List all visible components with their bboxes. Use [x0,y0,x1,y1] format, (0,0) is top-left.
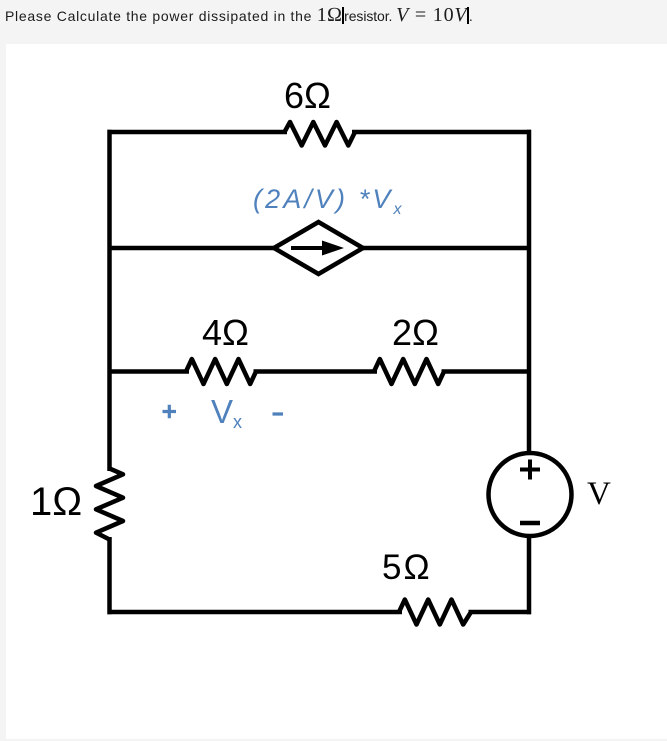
voltage source plus sign [520,460,540,480]
label plus Vx minus [163,405,284,418]
wire top [108,130,532,135]
wire middle branch segment [254,369,378,374]
svg-text:1Ω: 1Ω [30,480,82,524]
svg-text:5Ω: 5Ω [382,548,432,587]
resistor 2ohm [374,359,444,384]
voltage source minus sign [520,521,540,526]
svg-text:4Ω: 4Ω [202,312,249,353]
wire middle branch [108,369,190,374]
voltage source V circle [489,453,572,536]
svg-text:Vx: Vx [211,393,242,432]
wire middle branch segment 2 [442,369,532,374]
resistor 4ohm [186,359,256,384]
wire right [527,130,532,615]
resistor 5ohm [399,600,471,625]
wire current-source branch [108,246,532,251]
resistor 1ohm [96,469,123,540]
svg-text:(2A/V) *Vx: (2A/V) *Vx [253,184,405,218]
wire left [107,130,112,615]
resistor 6ohm [285,122,356,146]
wire bottom [108,610,532,615]
svg-text:V: V [587,476,611,512]
dependent current source diamond [274,222,363,274]
dependent source arrow [291,241,344,256]
svg-text:2Ω: 2Ω [392,312,439,353]
problem statement text [5,4,665,27]
svg-text:6Ω: 6Ω [284,75,331,116]
